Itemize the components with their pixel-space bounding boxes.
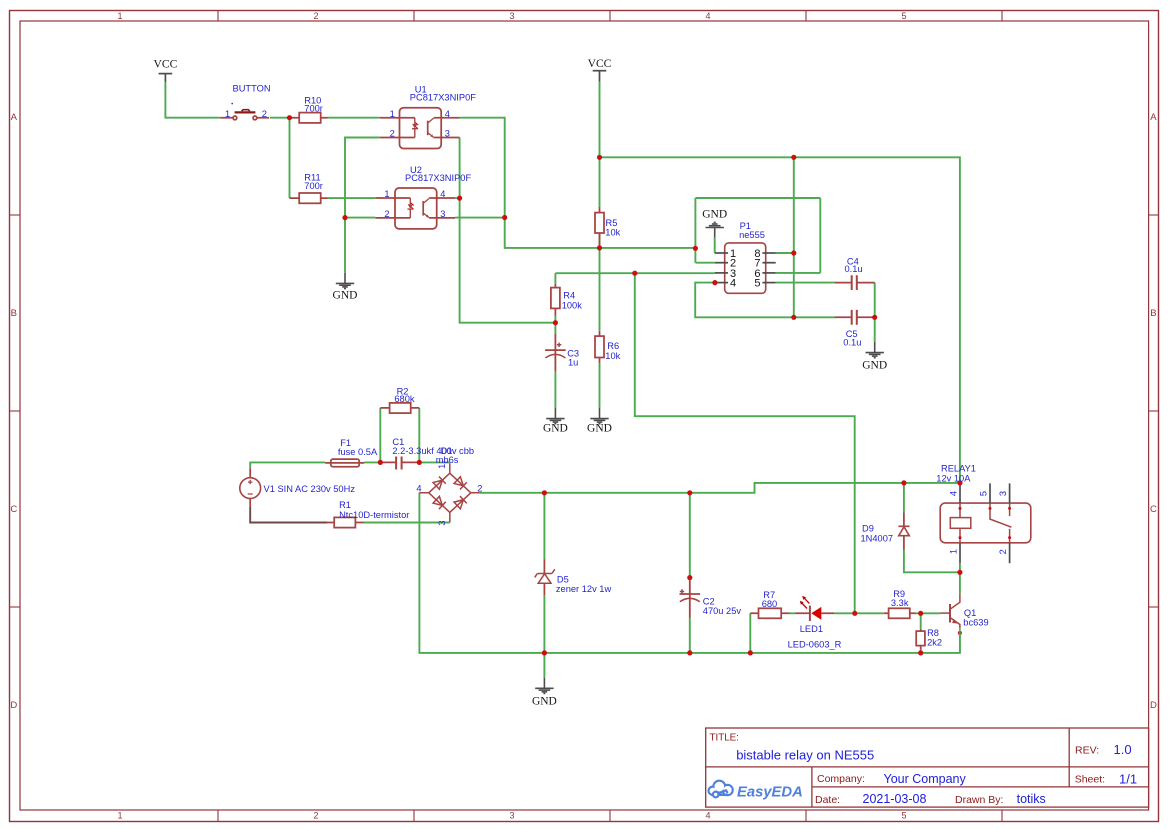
- svg-text:2.2-3.3ukf 400v cbb: 2.2-3.3ukf 400v cbb: [392, 446, 474, 456]
- svg-text:B: B: [11, 308, 17, 319]
- svg-text:1.0: 1.0: [1114, 742, 1132, 757]
- svg-text:680: 680: [762, 599, 778, 609]
- svg-text:2: 2: [390, 129, 395, 139]
- svg-text:1: 1: [437, 464, 447, 469]
- svg-text:R5: R5: [606, 218, 618, 228]
- svg-text:2021-03-08: 2021-03-08: [863, 792, 927, 806]
- svg-text:700r: 700r: [304, 104, 323, 114]
- svg-text:zener 12v 1w: zener 12v 1w: [556, 584, 612, 594]
- svg-text:A: A: [1150, 112, 1157, 123]
- svg-text:fuse 0.5A: fuse 0.5A: [338, 447, 378, 457]
- svg-text:4: 4: [440, 189, 445, 199]
- svg-text:12v 10A: 12v 10A: [936, 473, 971, 483]
- svg-text:GND: GND: [532, 695, 557, 707]
- svg-text:1: 1: [384, 189, 389, 199]
- svg-text:4: 4: [949, 491, 959, 496]
- svg-text:B: B: [1150, 308, 1156, 319]
- svg-text:3: 3: [509, 811, 514, 821]
- svg-text:2: 2: [998, 549, 1008, 554]
- svg-text:V1 SIN AC 230v 50Hz: V1 SIN AC 230v 50Hz: [264, 484, 356, 494]
- svg-text:680k: 680k: [394, 394, 415, 404]
- svg-text:5: 5: [754, 278, 760, 290]
- svg-text:ne555: ne555: [739, 230, 765, 240]
- svg-text:700r: 700r: [304, 181, 323, 191]
- svg-text:LED1: LED1: [800, 624, 823, 634]
- svg-text:3: 3: [445, 129, 450, 139]
- svg-text:C: C: [10, 504, 17, 515]
- svg-text:1/1: 1/1: [1119, 771, 1137, 786]
- svg-text:D: D: [1150, 700, 1157, 711]
- svg-text:4: 4: [705, 11, 710, 21]
- svg-text:5: 5: [901, 811, 906, 821]
- svg-text:PC817X3NIP0F: PC817X3NIP0F: [405, 173, 471, 183]
- svg-text:PC817X3NIP0F: PC817X3NIP0F: [410, 93, 476, 103]
- svg-text:VCC: VCC: [153, 57, 177, 70]
- svg-text:bc639: bc639: [963, 617, 988, 627]
- svg-text:REV:: REV:: [1075, 744, 1099, 756]
- svg-text:4: 4: [730, 278, 736, 290]
- svg-text:4: 4: [705, 811, 710, 821]
- svg-text:A: A: [11, 112, 18, 123]
- svg-text:5: 5: [979, 491, 989, 496]
- svg-text:bistable relay on NE555: bistable relay on NE555: [736, 748, 874, 763]
- svg-text:totiks: totiks: [1017, 792, 1046, 806]
- svg-text:10k: 10k: [605, 228, 620, 238]
- svg-text:GND: GND: [587, 423, 612, 435]
- svg-text:3: 3: [440, 209, 445, 219]
- svg-text:mb6s: mb6s: [436, 455, 459, 465]
- svg-text:2k2: 2k2: [927, 638, 942, 648]
- svg-text:C2: C2: [703, 597, 715, 607]
- svg-text:Date:: Date:: [815, 794, 840, 806]
- svg-text:R6: R6: [607, 341, 619, 351]
- svg-text:3: 3: [509, 11, 514, 21]
- svg-text:VCC: VCC: [588, 57, 612, 70]
- svg-text:R4: R4: [563, 290, 575, 300]
- svg-text:1: 1: [390, 109, 395, 119]
- svg-text:1: 1: [225, 109, 230, 119]
- svg-text:0.1u: 0.1u: [843, 337, 861, 347]
- svg-text:10k: 10k: [605, 351, 620, 361]
- svg-text:1N4007: 1N4007: [861, 533, 894, 543]
- svg-text:LED-0603_R: LED-0603_R: [788, 639, 842, 649]
- svg-text:Drawn By:: Drawn By:: [955, 794, 1003, 806]
- svg-text:2: 2: [313, 11, 318, 21]
- svg-text:GND: GND: [862, 360, 887, 372]
- svg-text:5: 5: [901, 11, 906, 21]
- svg-text:3.3k: 3.3k: [891, 598, 909, 608]
- svg-text:D: D: [10, 700, 17, 711]
- svg-text:100k: 100k: [562, 300, 583, 310]
- svg-text:1: 1: [949, 549, 959, 554]
- svg-text:Your Company: Your Company: [884, 772, 967, 786]
- svg-text:GND: GND: [702, 209, 727, 221]
- svg-text:2: 2: [477, 483, 482, 493]
- svg-text:Ntc10D-termistor: Ntc10D-termistor: [339, 510, 409, 520]
- svg-text:0.1u: 0.1u: [845, 264, 863, 274]
- svg-text:Sheet:: Sheet:: [1075, 773, 1105, 785]
- svg-text:3: 3: [998, 491, 1008, 496]
- svg-text:R1: R1: [339, 500, 351, 510]
- svg-text:1u: 1u: [568, 357, 578, 367]
- svg-text:4: 4: [445, 109, 450, 119]
- svg-text:3: 3: [437, 520, 447, 525]
- svg-text:1: 1: [117, 811, 122, 821]
- svg-text:4: 4: [416, 483, 421, 493]
- svg-text:D9: D9: [862, 523, 874, 533]
- svg-text:Company:: Company:: [817, 773, 865, 785]
- svg-text:2: 2: [313, 811, 318, 821]
- svg-text:C: C: [1150, 504, 1157, 515]
- svg-text:1: 1: [117, 11, 122, 21]
- svg-text:TITLE:: TITLE:: [710, 733, 739, 744]
- svg-text:GND: GND: [543, 423, 568, 435]
- svg-text:470u 25v: 470u 25v: [703, 606, 742, 616]
- svg-text:GND: GND: [333, 290, 358, 302]
- svg-text:BUTTON: BUTTON: [233, 84, 271, 94]
- svg-text:RELAY1: RELAY1: [941, 464, 976, 474]
- svg-text:2: 2: [262, 109, 267, 119]
- svg-text:2: 2: [384, 209, 389, 219]
- svg-text:EasyEDA: EasyEDA: [737, 784, 803, 800]
